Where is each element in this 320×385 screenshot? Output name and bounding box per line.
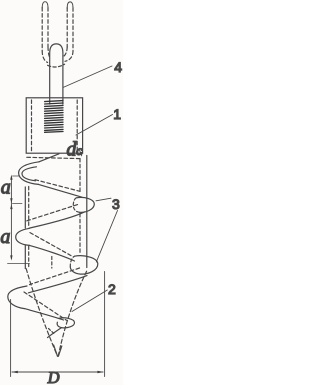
flight turn 3 front edge — [30, 245, 75, 261]
svg-text:2: 2 — [108, 281, 116, 297]
fork bore back edge (dashed arc across rod) — [48, 64, 65, 67]
D dimension extension line right — [104, 272, 106, 377]
shaft tube hidden left edge lower — [28, 246, 30, 267]
leader to label 3 (lower) — [96, 211, 117, 263]
spring coil — [45, 101, 63, 133]
pitch dim arrow up — [10, 175, 12, 180]
svg-text:a: a — [1, 177, 11, 199]
svg-text:3: 3 — [112, 196, 120, 212]
svg-text:D: D — [47, 368, 60, 385]
fork right prong cap — [67, 2, 73, 8]
dc dimension arrow — [79, 150, 81, 156]
casing inner wall left (dashed) — [31, 100, 33, 152]
flight turn 2 front edge — [29, 212, 85, 228]
svg-text:a: a — [0, 226, 10, 248]
extension tick at middle — [13, 203, 23, 205]
flight turn 5 back edge (dashed) — [24, 292, 67, 320]
pitch dimension line — [10, 177, 12, 259]
extension tick at lower — [8, 263, 30, 265]
flight left loop 2 (apex) — [16, 228, 30, 245]
pitch dim arrow down — [10, 255, 12, 260]
D dimension extension line left — [10, 300, 12, 377]
flight right loop 2 hidden part — [70, 256, 74, 267]
helix right envelope edge — [86, 156, 88, 268]
cone apex emphasized right — [58, 346, 61, 356]
svg-text:1: 1 — [113, 106, 121, 122]
pitch dim arrows middle — [10, 198, 12, 203]
fork left prong cap — [42, 2, 48, 8]
flight turn 4 back edge (dashed) — [30, 268, 80, 285]
flight left loop 1 (apex) — [19, 162, 39, 185]
flight turn 2 back edge (dashed) — [25, 205, 78, 222]
flight turn 0 back edge (dashed) — [27, 157, 80, 158]
leader to label 3 (upper) — [96, 198, 111, 201]
cone left edge (hidden) — [26, 269, 57, 357]
helix left envelope edge lower segment — [24, 246, 26, 269]
fork left prong hidden lines — [42, 8, 50, 63]
D dimension line — [12, 371, 103, 373]
rod (eye bar) with rounded top — [50, 44, 63, 104]
flight turn 1 front edge — [39, 184, 83, 197]
svg-text:4: 4 — [114, 59, 122, 75]
casing box — [26, 98, 82, 153]
casing inner wall right (dashed) — [76, 100, 78, 152]
flight turn 0 front edge — [39, 154, 59, 162]
cone apex emphasized left — [54, 345, 58, 356]
flight right loop 4 (small bulge on cone) — [57, 318, 74, 328]
cone right edge (hidden) — [58, 271, 86, 356]
flight turn 5 front edge — [25, 309, 64, 320]
flight right loop 1 (bulge) — [77, 197, 95, 212]
flight left loop 1 inner edge — [22, 167, 37, 181]
flight right loop 1 hidden part — [73, 198, 79, 213]
leader to label 4 — [63, 66, 112, 88]
extension tick at first apex — [13, 175, 20, 177]
flight turn 1 back edge (dashed) — [35, 180, 80, 192]
inner spiral remnant near apex (dashed) — [49, 329, 56, 335]
leader to label 1 — [76, 115, 113, 136]
shaft tube hidden right edge upper — [79, 159, 81, 194]
leader to label 2 — [72, 290, 107, 312]
flight right loop 2 (bulge) — [70, 256, 98, 274]
shaft tube hidden left edge upper — [28, 187, 30, 228]
fork right prong hidden lines — [64, 8, 73, 62]
shaft tube hidden right edge lower — [79, 214, 81, 255]
flight turn 6 front edge — [48, 328, 62, 338]
D dim arrow right — [97, 371, 104, 373]
D dim arrow left — [11, 371, 18, 373]
shaft stub hidden edge (center, top of cone) — [51, 257, 53, 269]
helix left envelope edge upper segment — [24, 187, 26, 228]
flight turn 3 back edge (dashed) — [30, 233, 74, 257]
flight turn 4 front edge — [29, 276, 88, 293]
flight left loop 3 (bulge on cone) — [8, 286, 27, 309]
svg-text:c: c — [76, 144, 83, 159]
